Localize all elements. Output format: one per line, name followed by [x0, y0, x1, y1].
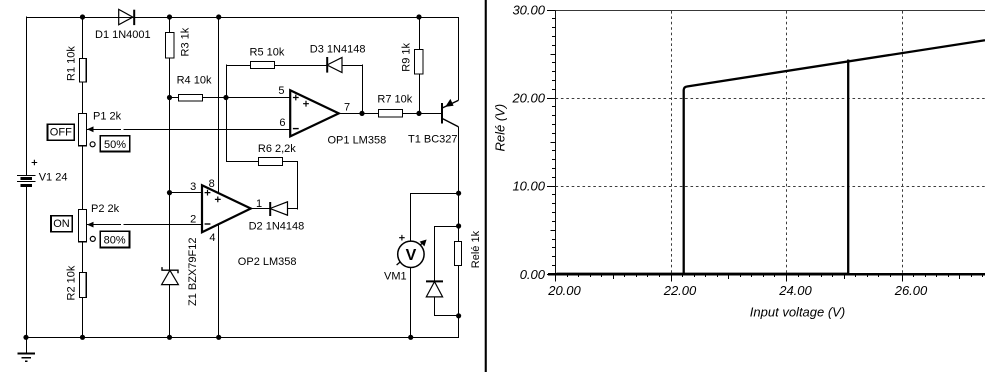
potentiometer P2 [79, 210, 87, 242]
wire collector node to VM1 corner [411, 194, 459, 242]
wire node B to R4 [170, 97, 179, 99]
svg-text:D1 1N4001: D1 1N4001 [95, 29, 151, 41]
OP2 minus input mark [205, 223, 211, 225]
flyback diode [426, 280, 443, 282]
svg-text:6: 6 [279, 117, 285, 129]
wire R3 to node B [169, 58, 171, 98]
svg-text:24.00: 24.00 [778, 283, 812, 298]
wire VM1 to ground rail [410, 268, 412, 338]
svg-text:50%: 50% [104, 139, 126, 151]
wire P1 wiper to OP1 pin6 (segment 2) [123, 129, 290, 131]
wire node A feedback vertical [226, 64, 228, 162]
svg-text:80%: 80% [104, 235, 126, 247]
diode D3 [326, 57, 328, 73]
svg-text:ON: ON [53, 218, 70, 230]
battery V1 symbol [17, 175, 35, 177]
wire feedback to R5 [226, 65, 251, 67]
P2 wiper terminal circle [90, 236, 95, 241]
junction node R7/R9 [416, 111, 421, 116]
svg-text:V: V [406, 247, 417, 264]
wire R4 to node A [203, 97, 227, 99]
OP1 minus input mark [293, 128, 299, 130]
wire left battery vertical (bottom) [26, 185, 28, 338]
transistor T1 collector [443, 119, 459, 127]
wire D3 to corner [342, 65, 363, 67]
svg-text:R1 10k: R1 10k [66, 46, 78, 81]
relay coil resistor Rele 1k [455, 242, 462, 266]
wire node B down to pin3 node [169, 98, 171, 193]
wire P1 wiper to OP1 pin6 (segment 1) [87, 129, 121, 131]
junction node OP1 output [359, 111, 364, 116]
chart dashed gridlines [671, 11, 673, 273]
wire R3 branch top [169, 17, 171, 32]
diode D2 [269, 202, 271, 216]
svg-text:D3 1N4148: D3 1N4148 [310, 43, 366, 55]
junction node top-pin8 [216, 14, 221, 19]
potentiometer P1 wiper arrow [87, 126, 94, 132]
junction node ground-zener [167, 335, 172, 340]
wire left battery vertical (top) [26, 16, 28, 175]
svg-text:OP1 LM358: OP1 LM358 [328, 135, 387, 147]
wire R9 branch top [419, 17, 421, 49]
svg-text:OP2 LM358: OP2 LM358 [238, 256, 297, 268]
wire OP2 pin8 supply vertical [218, 17, 220, 193]
svg-text:P1 2k: P1 2k [93, 110, 122, 122]
wire OP1 output rail [339, 113, 379, 115]
wire relay node to flyback diode [435, 227, 459, 282]
svg-text:26.00: 26.00 [894, 283, 928, 298]
wire P1 to P2 [82, 146, 84, 210]
svg-text:2: 2 [190, 213, 196, 225]
wire D2 to feedback corner [288, 208, 299, 210]
resistor R6 [259, 158, 283, 166]
svg-text:4: 4 [209, 232, 215, 244]
svg-text:Relé (V): Relé (V) [492, 104, 507, 152]
callout box 80% [100, 231, 129, 247]
svg-text:R6 2,2k: R6 2,2k [258, 143, 296, 155]
svg-text:T1 BC327: T1 BC327 [408, 134, 458, 146]
callout box OFF [47, 124, 74, 140]
svg-text:Z1 BZX79F12: Z1 BZX79F12 [187, 238, 199, 306]
junction node top-R9 [416, 14, 421, 19]
wire R7 to T1 base [403, 113, 442, 115]
junction node relay top [456, 223, 461, 228]
wire corner down to OP1 output [362, 64, 364, 113]
wire R5 to D3 [275, 65, 328, 67]
callout box ON [51, 216, 72, 232]
diode D1 [119, 9, 133, 24]
wire P2 wiper to OP2 pin2 (segment 1) [87, 224, 121, 226]
battery V1 plus sign [32, 160, 38, 166]
wire pin3 node to OP1... OP2 pin3 [170, 192, 203, 194]
wire OP2 output to D2 [251, 208, 271, 210]
divider line between schematic and chart [485, 0, 487, 372]
svg-text:30.00: 30.00 [512, 3, 545, 18]
svg-text:1: 1 [256, 198, 262, 210]
resistor R1 [80, 59, 87, 83]
wire R1 branch top [82, 17, 84, 58]
voltmeter VM1 plus sign [399, 235, 405, 241]
wire relay resistor to ground corner [411, 266, 459, 338]
svg-text:5: 5 [278, 85, 284, 97]
voltmeter VM1 arrow [397, 241, 426, 265]
transistor T1 emitter [443, 100, 459, 108]
resistor R7 [379, 110, 403, 118]
junction node A (R4/R5/R6/pin5) [223, 95, 228, 100]
wire pin3 node to zener [169, 193, 171, 270]
wire T1 emitter vertical [458, 17, 460, 100]
op-amp U1 OP1 triangle [290, 90, 339, 136]
potentiometer P1 [79, 114, 87, 146]
wire flyback diode to merge node [435, 297, 459, 316]
wire OP2 pin4 ground vertical [218, 224, 220, 337]
svg-text:20.00: 20.00 [547, 283, 581, 298]
svg-text:R4 10k: R4 10k [177, 74, 212, 86]
wire P2 to R2 [82, 242, 84, 273]
potentiometer P2 wiper arrow [87, 222, 94, 228]
OP2 supply plus mark [215, 197, 221, 203]
svg-text:20.00: 20.00 [511, 91, 545, 106]
svg-text:V1 24: V1 24 [39, 172, 68, 184]
wire R6 feedback left [227, 161, 259, 163]
wire R9 to output node [419, 74, 421, 113]
junction node ground-battery [23, 335, 28, 340]
wire zener to ground [169, 285, 171, 338]
voltmeter VM1 circle [398, 241, 424, 267]
svg-text:0.00: 0.00 [520, 267, 546, 282]
wire top supply rail [26, 17, 459, 19]
wire node A to OP1 pin5 [226, 97, 290, 99]
junction node B (R3/R4) [167, 95, 172, 100]
svg-text:R9 1k: R9 1k [401, 42, 413, 71]
OP1 plus input mark [293, 95, 299, 101]
svg-text:Input voltage (V): Input voltage (V) [750, 305, 845, 320]
svg-text:Relé 1k: Relé 1k [470, 230, 482, 268]
svg-text:P2 2k: P2 2k [91, 203, 120, 215]
OP2 plus input mark [205, 190, 211, 196]
resistor R3 [166, 33, 174, 58]
transistor T1 emitter arrow [445, 99, 453, 107]
resistor R5 [251, 62, 275, 69]
OP1 supply plus mark [303, 101, 309, 107]
zener diode Z1 [162, 267, 178, 273]
transistor Q1 T1 base bar [441, 103, 443, 123]
op-amp U2 OP2 triangle [202, 185, 251, 232]
chart curve (relay voltage vs input voltage) [557, 273, 849, 275]
svg-text:8: 8 [209, 178, 215, 190]
junction node flyback merge [456, 313, 461, 318]
svg-text:R5 10k: R5 10k [250, 47, 285, 59]
resistor R2 [80, 273, 87, 298]
wire ground rail [26, 337, 459, 339]
junction node pin3 [167, 190, 172, 195]
ground symbol [26, 337, 28, 353]
wire P2 wiper to OP2 pin2 (segment 2) [123, 224, 202, 226]
svg-text:10.00: 10.00 [512, 179, 545, 194]
wire collector node to relay node [458, 193, 460, 241]
wire R1 to P1 [82, 82, 84, 114]
chart axes and ticks [555, 10, 557, 274]
callout box 50% [100, 136, 130, 152]
svg-text:VM1: VM1 [384, 271, 407, 283]
wire R2 to ground [82, 298, 84, 338]
wire T1 collector vertical [458, 127, 460, 193]
junction node collector/VM1 [456, 191, 461, 196]
wire R6 right to corner [283, 162, 298, 210]
junction node ground-R2 [80, 335, 85, 340]
resistor R4 [179, 95, 203, 102]
svg-text:R7 10k: R7 10k [377, 93, 412, 105]
svg-text:R3 1k: R3 1k [180, 27, 192, 56]
junction node ground-pin4 [216, 335, 221, 340]
svg-text:22.00: 22.00 [663, 283, 697, 298]
P1 wiper terminal circle [90, 142, 95, 147]
svg-text:D2 1N4148: D2 1N4148 [249, 221, 305, 233]
svg-text:3: 3 [190, 181, 196, 193]
svg-text:OFF: OFF [50, 127, 72, 139]
junction node ground-VM1 [408, 335, 413, 340]
svg-text:7: 7 [344, 102, 350, 114]
junction node top-R1 [80, 14, 85, 19]
resistor R9 [415, 50, 424, 75]
voltmeter VM1 arrowhead [420, 240, 427, 247]
junction node top-R3 [167, 14, 172, 19]
svg-text:R2 10k: R2 10k [66, 265, 78, 300]
